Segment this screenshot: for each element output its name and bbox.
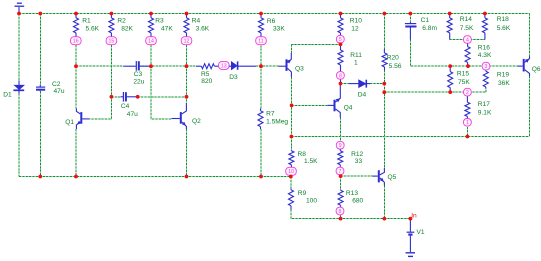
resistor R10 <box>338 14 343 36</box>
node 14 bubble <box>146 37 157 45</box>
svg-text:C3: C3 <box>134 71 143 78</box>
svg-text:R14: R14 <box>460 16 472 23</box>
resistor R12 <box>338 149 343 167</box>
resistor R18 <box>482 14 487 40</box>
svg-text:75K: 75K <box>458 79 470 86</box>
junction bottom-left bus x=40.3 <box>38 175 42 179</box>
svg-text:14: 14 <box>148 39 154 45</box>
wire R6 column (node11 to R7) <box>260 45 262 108</box>
junction C4 row x=186.5 <box>185 95 189 99</box>
node 9 bubble (above R12) <box>336 141 344 149</box>
svg-text:1: 1 <box>466 120 469 126</box>
svg-text:47u: 47u <box>54 88 65 95</box>
svg-text:D1: D1 <box>3 92 12 99</box>
svg-text:R7: R7 <box>266 111 275 118</box>
junction top bus x=151 <box>149 12 153 16</box>
wire node1 to mid rail <box>466 127 468 137</box>
svg-text:R18: R18 <box>497 16 509 23</box>
junction C4 row x=137.7 <box>136 95 140 99</box>
junction D4 cathode column <box>382 82 386 86</box>
resistor R5 <box>196 64 219 69</box>
svg-text:V1: V1 <box>417 229 425 236</box>
resistor R17 <box>465 96 470 118</box>
svg-text:1: 1 <box>354 60 358 67</box>
wire Q5 emitter drop <box>383 186 385 219</box>
svg-text:R10: R10 <box>350 17 362 24</box>
resistor R13 <box>338 190 343 207</box>
junction R16 bottom <box>466 64 470 68</box>
wire row A right segment (D3 to Q3 base) <box>256 65 279 67</box>
node 8 bubble (below R11) <box>337 72 345 80</box>
svg-text:4: 4 <box>466 37 469 43</box>
svg-text:10: 10 <box>288 169 294 175</box>
wire R7 bottom drop <box>260 129 262 177</box>
resistor R8 <box>289 150 294 167</box>
svg-text:33K: 33K <box>273 25 285 32</box>
wire R3 column to Q2 base corner <box>151 45 172 119</box>
junction bottom-left bus x=76 <box>74 175 78 179</box>
svg-text:15: 15 <box>109 39 115 45</box>
svg-text:47u: 47u <box>127 111 138 118</box>
svg-text:Q5: Q5 <box>388 174 397 181</box>
svg-text:R15: R15 <box>457 71 469 78</box>
resistor R2 <box>109 14 114 37</box>
svg-text:11: 11 <box>258 39 263 45</box>
resistor R1 <box>74 14 79 37</box>
wire R14/R18 joining rail <box>450 39 485 41</box>
node 2 bubble <box>464 88 472 96</box>
junction bottom-left bus x=186.5 <box>185 175 189 179</box>
battery V1 <box>407 219 415 252</box>
svg-text:820: 820 <box>201 78 212 85</box>
wire row A left segment <box>76 65 123 67</box>
svg-text:C1: C1 <box>421 17 430 24</box>
svg-text:1.5Meg: 1.5Meg <box>266 119 288 126</box>
svg-text:9: 9 <box>339 143 342 149</box>
wire Q4 base rail <box>292 104 328 106</box>
wire row A middle segment <box>139 65 196 67</box>
wire node7 to R13 <box>340 176 342 189</box>
resistor R7 <box>258 109 263 130</box>
svg-text:2: 2 <box>466 90 469 96</box>
junction C4 row x=111.4 <box>110 95 114 99</box>
svg-text:5.6K: 5.6K <box>497 25 511 32</box>
node 8 bubble (below R13) <box>336 207 344 215</box>
svg-text:1.5K: 1.5K <box>304 158 318 165</box>
junction top bus x=261 <box>259 12 263 16</box>
svg-text:36K: 36K <box>498 80 510 87</box>
wire Q1 collector drop <box>75 66 77 108</box>
node 16 bubble <box>71 37 82 45</box>
node 3 bubble <box>482 62 490 70</box>
resistor R14 <box>447 14 452 40</box>
diode D3 <box>229 61 256 69</box>
svg-text:R11: R11 <box>350 52 362 59</box>
svg-text:R1: R1 <box>82 17 91 24</box>
wire right edge lower (Q6 collector down) <box>529 76 531 137</box>
wire R2 column to Q1 base corner <box>90 45 112 119</box>
node 1 bubble <box>464 119 472 127</box>
svg-text:R16: R16 <box>478 45 490 52</box>
junction top bus x=40.3 <box>38 12 42 16</box>
transistor Q2 <box>172 103 187 129</box>
junction bottom bus x=410.4 <box>409 217 413 221</box>
svg-text:R17: R17 <box>478 101 490 108</box>
resistor R3 <box>149 14 154 37</box>
svg-text:100: 100 <box>306 198 317 205</box>
node 11 bubble <box>256 37 267 45</box>
svg-text:12: 12 <box>184 39 190 45</box>
junction Q4 base / Q3 collector <box>290 104 294 108</box>
wire Q2 emitter drop <box>186 129 188 177</box>
svg-text:3.6K: 3.6K <box>196 25 210 32</box>
junction top bus x=19 <box>17 12 21 16</box>
junction R15 top <box>448 64 452 68</box>
node 7 bubble <box>336 167 344 175</box>
junction top bus x=449.7 <box>448 12 452 16</box>
svg-text:R20: R20 <box>387 55 399 62</box>
ground GND at V1 <box>406 253 415 257</box>
resistor R6 <box>259 14 264 37</box>
svg-text:C2: C2 <box>52 81 61 88</box>
ground GND top-left <box>15 3 25 13</box>
svg-text:7.5K: 7.5K <box>460 25 474 32</box>
node 12 bubble <box>181 37 192 45</box>
svg-text:3: 3 <box>485 64 488 70</box>
svg-text:R4: R4 <box>192 17 201 24</box>
svg-text:R5: R5 <box>201 71 210 78</box>
svg-text:33: 33 <box>355 158 363 165</box>
node 4 bubble <box>464 36 472 44</box>
wire R8 top lead <box>290 137 292 150</box>
wire R13 to bottom bus <box>340 215 342 219</box>
junction bottom bus x=384.4 <box>383 217 387 221</box>
svg-text:R13: R13 <box>346 190 358 197</box>
resistor R4 <box>184 14 189 37</box>
junction bottom-left bus x=261 <box>259 175 263 179</box>
junction R20 column / y92 rail <box>382 90 386 94</box>
svg-text:R9: R9 <box>298 190 307 197</box>
wire Q1 emitter drop <box>75 129 77 177</box>
resistor R20 <box>382 49 387 70</box>
junction top bus x=186.5 <box>185 12 189 16</box>
svg-text:Q2: Q2 <box>192 118 201 125</box>
svg-text:R2: R2 <box>117 17 126 24</box>
wire D4 anode stub <box>341 83 350 85</box>
wire bottom bus with R9 corner <box>291 210 410 219</box>
wire R20 column upper <box>383 14 385 49</box>
capacitor C4 <box>121 92 138 102</box>
junction row A x=151 <box>149 64 153 68</box>
junction top bus x=76 <box>74 12 78 16</box>
svg-text:5.6K: 5.6K <box>86 25 100 32</box>
node 5 bubble <box>336 35 344 43</box>
svg-text:8: 8 <box>339 209 342 215</box>
transistor Q4 <box>327 84 340 118</box>
junction bottom-left bus x=290.8 <box>289 175 293 179</box>
svg-text:13: 13 <box>221 63 227 69</box>
junction top bus x=340.5 <box>339 12 343 16</box>
wire C1 column upper <box>409 14 411 22</box>
junction top bus x=111.4 <box>110 12 114 16</box>
resistor R19 <box>483 70 488 88</box>
resistor R16 <box>465 44 470 67</box>
svg-text:12: 12 <box>351 25 359 32</box>
svg-text:Q3: Q3 <box>295 66 304 73</box>
junction top bus x=384.4 <box>383 12 387 16</box>
wire C1 to right rail y=66 <box>410 40 517 67</box>
junction mid rail / Q3 collector / R8 <box>290 135 294 139</box>
svg-text:Q1: Q1 <box>65 119 74 126</box>
wire bottom-left ground bus <box>19 176 291 178</box>
wire R9 top lead <box>290 177 292 189</box>
svg-text:4.3K: 4.3K <box>478 52 492 59</box>
wire mid horizontal feedback rail y=136.5 <box>291 136 529 138</box>
wire R20/Q5 collector column <box>383 70 385 168</box>
wire D1 column lower <box>18 94 20 177</box>
resistor R9 <box>289 188 294 209</box>
wire Q4 emitter to node9 <box>339 118 341 142</box>
capacitor C1 <box>405 22 417 40</box>
svg-text:6.8m: 6.8m <box>422 25 437 32</box>
capacitor C3 <box>123 61 151 71</box>
svg-text:C4: C4 <box>121 103 130 110</box>
node 15 bubble <box>106 37 117 45</box>
wire R4 column to Q2 collector <box>186 45 188 103</box>
wire right edge upper (Q6 emitter to top bus) <box>529 14 531 57</box>
capacitor C2 <box>36 85 45 92</box>
svg-text:Q6: Q6 <box>532 66 541 73</box>
svg-text:680: 680 <box>352 198 363 205</box>
svg-text:R19: R19 <box>497 71 509 78</box>
svg-text:R6: R6 <box>267 18 276 25</box>
svg-text:8: 8 <box>339 73 342 79</box>
wire C4 row right <box>138 96 187 98</box>
wire D1 column upper <box>18 14 20 81</box>
junction node5 rail <box>339 42 343 46</box>
junction row A x=186.5 <box>185 64 189 68</box>
transistor Q3 <box>279 53 292 77</box>
svg-text:22u: 22u <box>133 78 144 85</box>
svg-text:5: 5 <box>339 37 342 43</box>
junction R15 bottom <box>448 90 452 94</box>
transistor Q6 <box>518 57 530 77</box>
transistor Q5 <box>373 168 385 186</box>
diode D1 <box>13 81 24 94</box>
svg-text:D3: D3 <box>229 74 238 81</box>
wire top supply bus <box>19 13 530 15</box>
wire C2 column upper <box>39 14 41 85</box>
junction top bus x=410.4 <box>409 12 413 16</box>
svg-text:16: 16 <box>73 39 79 45</box>
resistor R15 <box>448 66 453 92</box>
transistor Q1 <box>76 109 89 130</box>
resistor R11 <box>338 44 343 83</box>
wire Q3 emitter rail <box>291 43 340 45</box>
wire Q3 emitter riser <box>290 44 292 53</box>
svg-text:5.56: 5.56 <box>389 63 402 70</box>
wire D4 cathode stub <box>370 83 384 85</box>
wire Q5 base rail <box>341 175 373 177</box>
svg-text:D4: D4 <box>358 92 367 99</box>
svg-text:82K: 82K <box>121 25 133 32</box>
junction row A x=261 <box>259 64 263 68</box>
junction row A x=76 <box>74 64 78 68</box>
svg-text:7: 7 <box>339 169 342 175</box>
junction mid rail / R17 bottom <box>466 135 470 139</box>
svg-text:47K: 47K <box>161 25 173 32</box>
wire node16 to row A <box>75 45 77 66</box>
wire C4 row left <box>111 96 120 98</box>
junction bottom bus x=340.6 <box>339 217 343 221</box>
diode D4 <box>349 80 370 88</box>
wire C2 column lower <box>39 92 41 177</box>
wire Q3 collector drop <box>290 77 292 137</box>
svg-text:9.1K: 9.1K <box>478 109 492 116</box>
node 10 bubble <box>286 167 297 175</box>
svg-text:R3: R3 <box>155 17 164 24</box>
junction top bus x=484.9 <box>483 12 487 16</box>
junction Q5 base / node7 <box>339 174 343 178</box>
wire mid-right rail y=92 and R19 corner <box>384 89 486 93</box>
junction R11 bottom / D4 anode <box>339 82 343 86</box>
svg-text:Q4: Q4 <box>344 105 353 112</box>
node 13 bubble <box>219 61 230 69</box>
